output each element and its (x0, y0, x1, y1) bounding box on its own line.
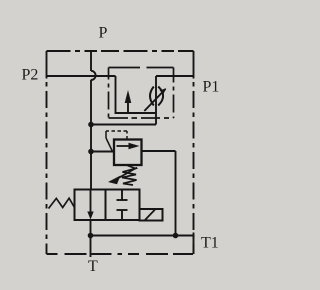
svg-text:T1: T1 (201, 235, 219, 252)
svg-text:P1: P1 (203, 79, 220, 96)
svg-text:P2: P2 (22, 66, 39, 83)
svg-text:P: P (99, 25, 108, 42)
svg-text:T: T (88, 258, 98, 275)
